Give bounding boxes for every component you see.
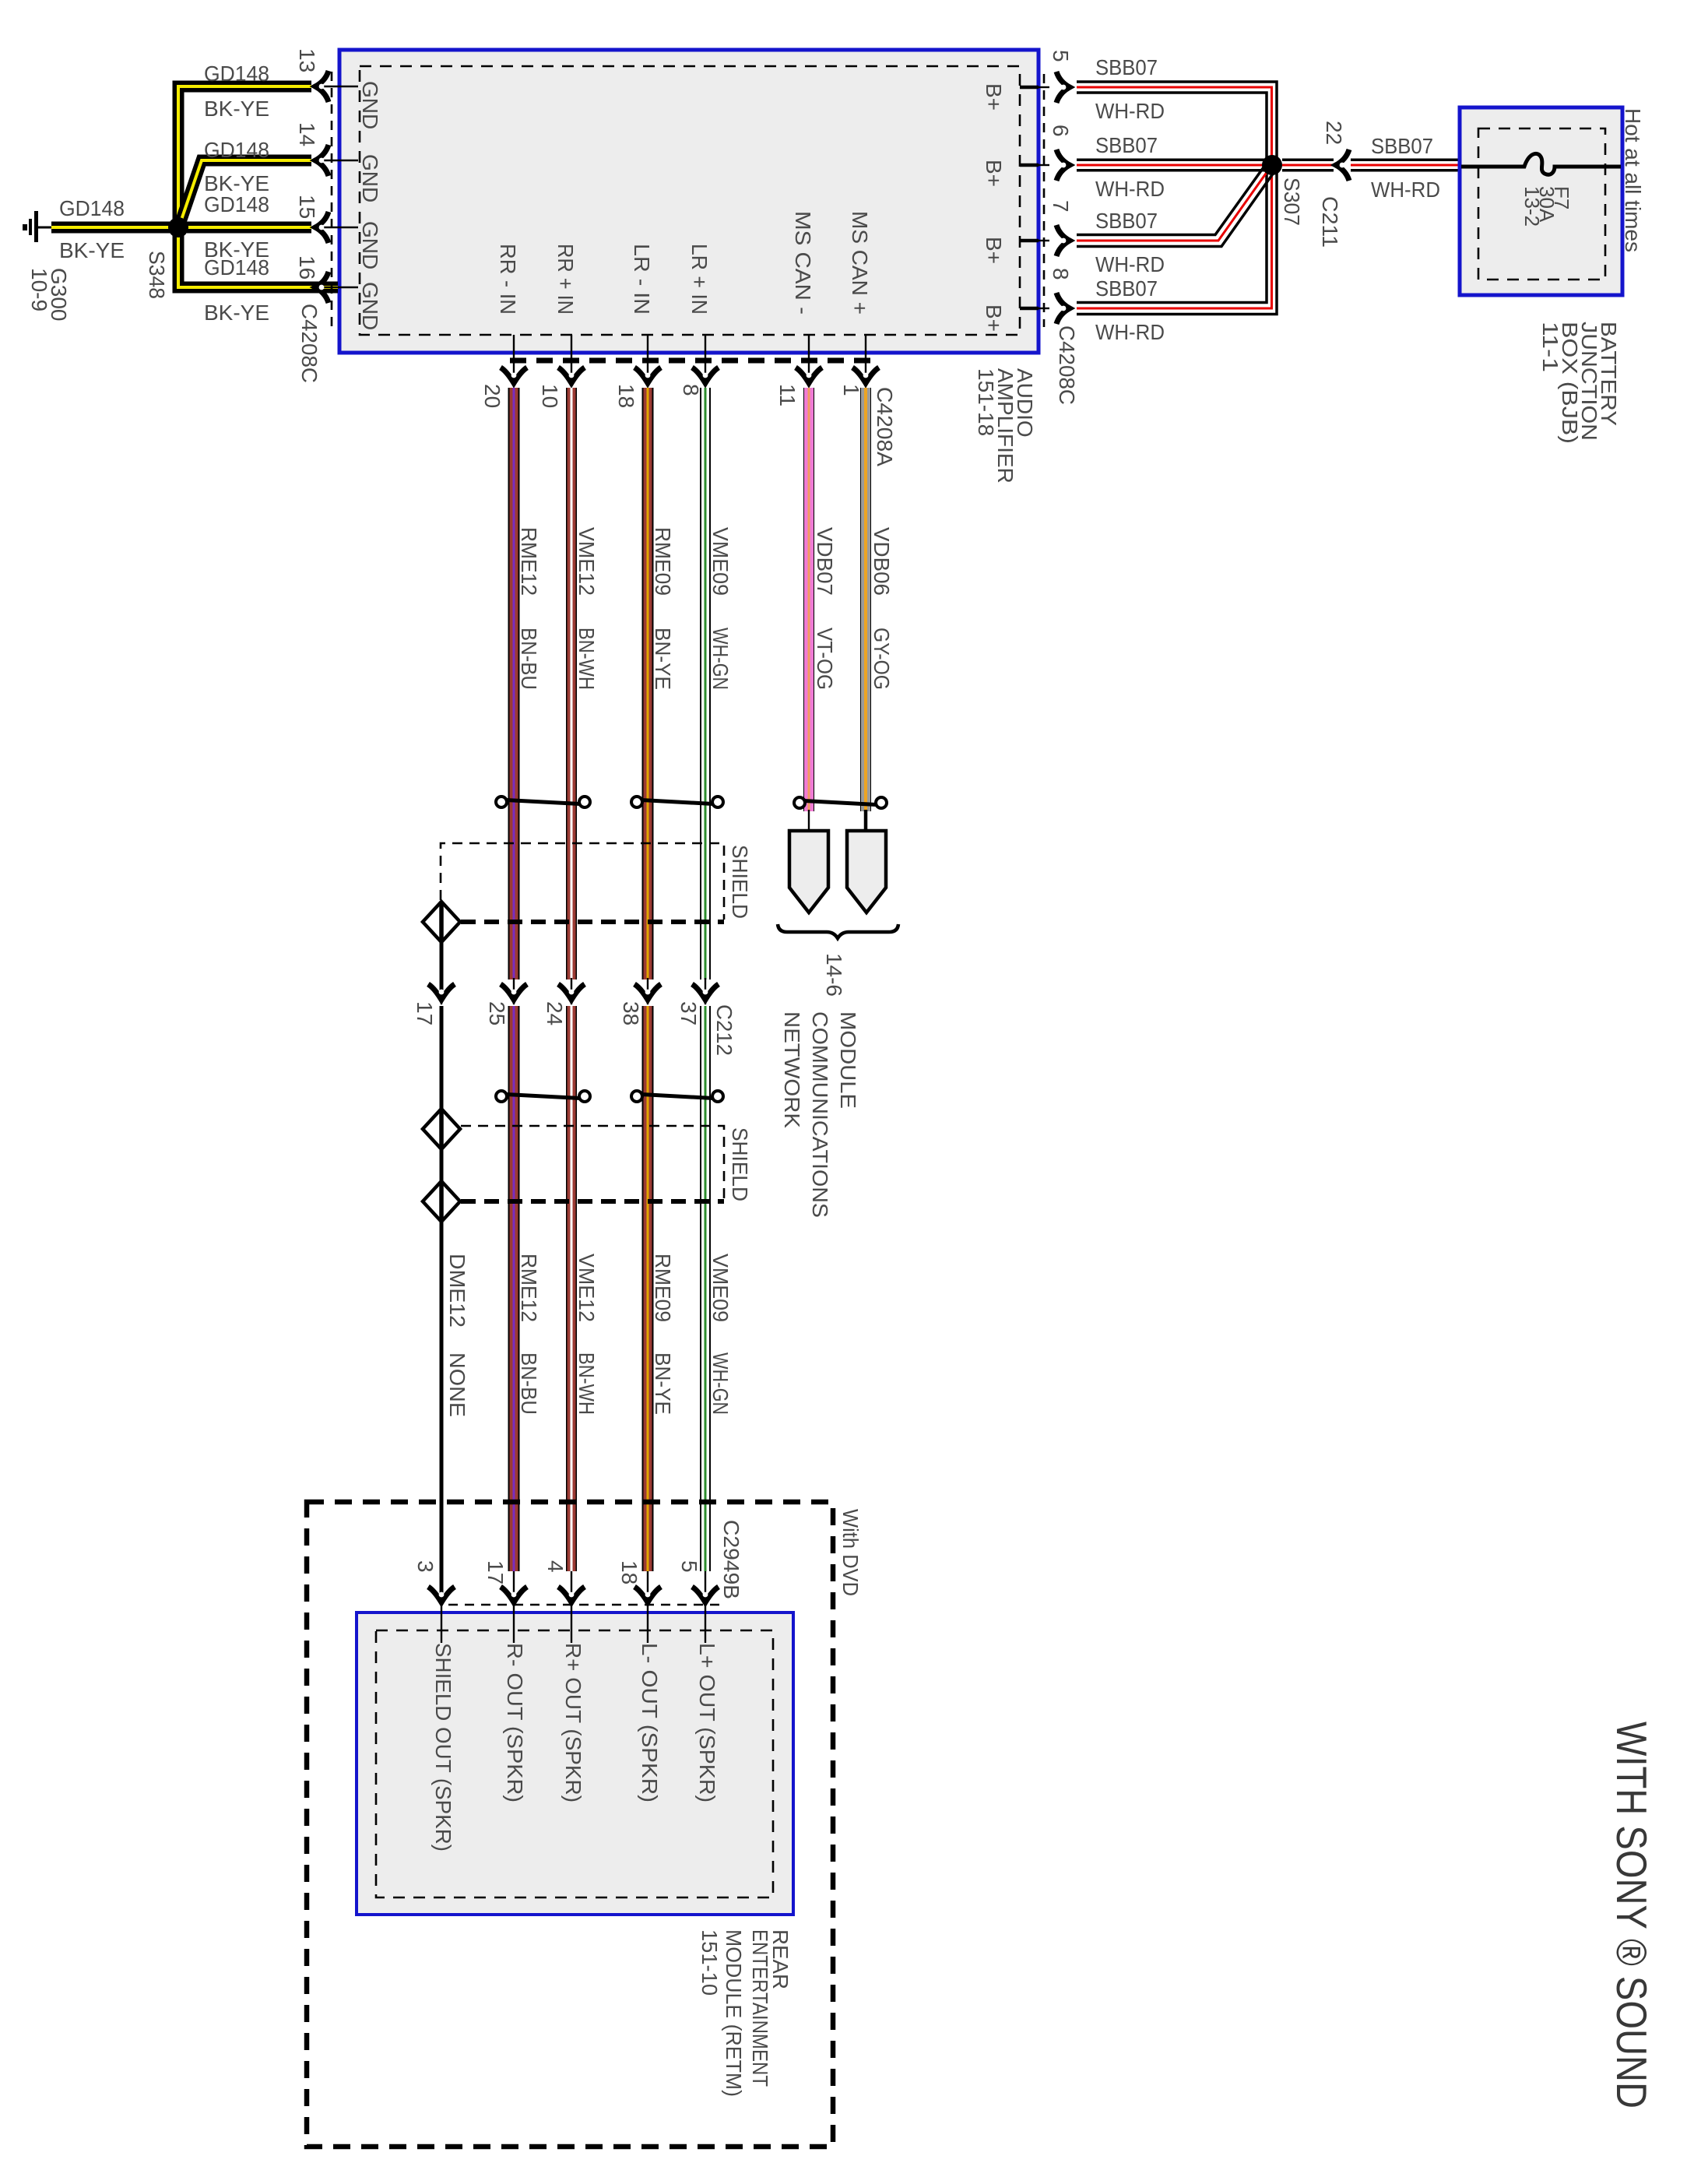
connector C4208A thick dashed line xyxy=(510,358,872,364)
svg-text:RME12: RME12 xyxy=(517,1254,541,1322)
pin number 17 (C212) xyxy=(413,1001,437,1025)
pin number 13 xyxy=(295,48,319,72)
pin label L+ OUT (SPKR) xyxy=(695,1643,719,1802)
svg-text:RME09: RME09 xyxy=(651,527,675,596)
svg-text:10-9: 10-9 xyxy=(27,268,51,311)
connector arrow pin 17 (C2949B) xyxy=(501,1587,527,1602)
connector arrow pin 10 (C4208A) xyxy=(558,368,585,383)
svg-text:WITH SONY ® SOUND: WITH SONY ® SOUND xyxy=(1608,1722,1656,2108)
svg-text:16: 16 xyxy=(295,255,319,280)
svg-text:151-18: 151-18 xyxy=(974,368,998,436)
connector C4208C dashed line (left) xyxy=(331,72,333,329)
svg-text:GD148: GD148 xyxy=(204,192,269,216)
label RME09 (lower) xyxy=(651,1254,675,1322)
connector arrow C211 pin 22 xyxy=(1336,149,1349,181)
pin label B+ 7 xyxy=(982,237,1006,264)
rear entertainment module box xyxy=(357,1613,793,1915)
label WH-RD (pin 6) xyxy=(1095,177,1165,201)
pin lead 17 (C212) xyxy=(441,978,442,1004)
label SHIELD (box 2) xyxy=(728,1127,752,1201)
label WH-RD (pin 8) xyxy=(1095,320,1165,344)
connector arrow pin 24 (C212) xyxy=(558,984,585,1000)
svg-text:RR + IN: RR + IN xyxy=(554,244,578,315)
svg-text:VME12: VME12 xyxy=(575,1254,599,1322)
connector arrow pin 6 xyxy=(1056,149,1070,181)
connector arrow pin 18 (C2949B) xyxy=(634,1587,661,1602)
lead pin 5 (C2949B) xyxy=(705,1571,706,1602)
label BN-WH xyxy=(575,628,599,690)
pin lead 16 xyxy=(322,287,358,288)
svg-text:18: 18 xyxy=(614,384,638,408)
svg-text:3: 3 xyxy=(413,1560,438,1573)
label VME09 xyxy=(708,527,733,596)
label C212 xyxy=(712,1004,736,1056)
pin number 3 (C2949B) xyxy=(413,1560,438,1573)
svg-text:VDB07: VDB07 xyxy=(813,527,837,596)
svg-text:GD148: GD148 xyxy=(204,255,269,280)
label BN-BU xyxy=(517,628,541,690)
label SBB07 (pin 7) xyxy=(1095,209,1158,233)
svg-text:B+: B+ xyxy=(982,83,1006,111)
svg-text:5: 5 xyxy=(1049,50,1073,62)
pin lead 11 (C4208A) xyxy=(808,335,810,386)
pin lead 38 (C212) xyxy=(647,978,648,1004)
connector arrow pin 17 (C212) xyxy=(428,984,455,1000)
label S307 xyxy=(1280,178,1304,226)
svg-text:C211: C211 xyxy=(1318,196,1342,248)
svg-text:WH-RD: WH-RD xyxy=(1371,178,1440,202)
svg-text:WH-RD: WH-RD xyxy=(1095,99,1165,123)
label WH-GN (lower) xyxy=(708,1352,733,1415)
label DME12 xyxy=(445,1254,469,1328)
pin number 16 xyxy=(295,255,319,280)
With DVD dashed box xyxy=(307,1502,833,2147)
svg-text:ENTERTAINMENT: ENTERTAINMENT xyxy=(748,1929,772,2087)
wire RME12 BN-BU upper segment xyxy=(508,388,520,979)
pin label MS CAN + xyxy=(848,211,872,315)
label BK-YE (pin 13) xyxy=(204,97,269,121)
label GD148 (pin 13) xyxy=(204,62,269,86)
pin number 11 (C4208A) xyxy=(775,384,800,406)
pin label R- OUT (SPKR) xyxy=(503,1643,527,1802)
label F7 30A 13-2 xyxy=(1520,186,1573,227)
svg-text:SBB07: SBB07 xyxy=(1371,134,1433,158)
label C4208C (left) xyxy=(297,304,322,383)
pin lead 15 xyxy=(322,227,358,228)
label SBB07 (to BJB) xyxy=(1371,134,1433,158)
svg-text:8: 8 xyxy=(1049,268,1073,280)
wire GD148 BK-YE to pin 16 xyxy=(178,234,338,287)
pin lead B+ 6 xyxy=(1020,164,1049,167)
svg-text:S348: S348 xyxy=(145,251,169,299)
pin lead 14 xyxy=(322,160,358,161)
pin lead B+ 5 xyxy=(1020,86,1049,90)
pin number 38 (C212) xyxy=(619,1001,643,1025)
pin number 1 (C4208A) xyxy=(839,384,863,396)
svg-text:C4208A: C4208A xyxy=(873,387,897,466)
svg-text:10: 10 xyxy=(538,384,562,408)
pin label RR + IN xyxy=(554,244,578,315)
splice S307 xyxy=(1262,155,1282,175)
svg-text:GND: GND xyxy=(358,221,382,269)
shield drain diamond 3 xyxy=(423,1181,460,1222)
svg-text:VME09: VME09 xyxy=(708,527,733,596)
svg-text:With DVD: With DVD xyxy=(838,1509,863,1596)
wire GD148 BK-YE to pin 14 xyxy=(180,160,311,224)
BJB inner dashed boundary xyxy=(1478,128,1605,280)
pin label GND 15 xyxy=(358,221,382,269)
pin lead 8 (C4208A) xyxy=(705,335,706,386)
pin number 25 (C212) xyxy=(485,1001,509,1025)
svg-text:SHIELD: SHIELD xyxy=(728,1127,752,1201)
fuse F7 30A xyxy=(1461,153,1621,174)
wire SBB07 WH-RD to BJB xyxy=(1351,159,1460,172)
pin lead 1 (C4208A) xyxy=(865,335,866,386)
shield drain diamond 2 xyxy=(423,1109,460,1149)
label GD148 (ground feed) xyxy=(59,196,125,220)
pin label RR - IN xyxy=(496,244,520,315)
pin number 8 xyxy=(1049,268,1073,280)
lead pin 3 (C2949B) xyxy=(441,1571,442,1602)
label Hot at all times xyxy=(1621,108,1645,252)
shield box 2 dashed outline xyxy=(461,1126,724,1201)
label C211 xyxy=(1318,196,1342,248)
label REAR ENTERTAINMENT MODULE (RETM) 151-10 xyxy=(698,1929,793,2097)
pin label L- OUT (SPKR) xyxy=(638,1643,662,1802)
wire SBB07 WH-RD pin 6 xyxy=(1077,159,1266,172)
connector arrow pin 5 (C2949B) xyxy=(692,1587,719,1602)
svg-text:MODULE: MODULE xyxy=(836,1011,860,1109)
connector arrow pin 14 xyxy=(315,145,329,176)
wire VME12 BN-WH upper segment xyxy=(566,388,577,979)
connector arrow pin 4 (C2949B) xyxy=(558,1587,585,1602)
svg-text:GD148: GD148 xyxy=(204,138,269,162)
lead to network terminator (MS CAN -) xyxy=(808,810,810,832)
svg-text:VME09: VME09 xyxy=(708,1254,733,1322)
svg-text:MODULE (RETM): MODULE (RETM) xyxy=(722,1929,746,2097)
label SBB07 (pin 5) xyxy=(1095,55,1158,79)
pin lead 20 (C4208A) xyxy=(513,335,515,386)
connector arrow pin 25 (C212) xyxy=(501,984,527,1000)
splice S348 xyxy=(168,217,188,237)
label GD148 (pin 16) xyxy=(204,255,269,280)
pin label LR + IN xyxy=(687,244,712,315)
svg-text:B+: B+ xyxy=(982,237,1006,264)
label AUDIO AMPLIFIER 151-18 xyxy=(974,368,1037,484)
pin label GND 16 xyxy=(358,282,382,330)
svg-text:13-2: 13-2 xyxy=(1520,186,1544,227)
lead into RETM pin 3 xyxy=(441,1602,442,1643)
svg-text:17: 17 xyxy=(413,1001,437,1025)
wire GD148 BK-YE to pin 13 xyxy=(178,86,311,227)
svg-text:BN-WH: BN-WH xyxy=(575,1352,599,1415)
label VME09 (lower) xyxy=(708,1254,733,1322)
pin number 18 (C2949B) xyxy=(617,1560,641,1584)
svg-text:VDB06: VDB06 xyxy=(870,527,894,596)
svg-text:BN-BU: BN-BU xyxy=(517,1352,541,1415)
label 14-6 xyxy=(822,953,846,997)
wire VME09 WH-GN upper segment xyxy=(700,388,711,979)
svg-text:MS CAN -: MS CAN - xyxy=(791,211,815,315)
svg-text:VT-OG: VT-OG xyxy=(813,628,837,690)
svg-text:14-6: 14-6 xyxy=(822,953,846,997)
svg-text:6: 6 xyxy=(1049,125,1073,137)
wire SBB07 WH-RD pin 7 xyxy=(1077,162,1275,247)
svg-text:SBB07: SBB07 xyxy=(1095,276,1158,301)
twisted pair symbol LR (lower) xyxy=(631,1091,723,1102)
twisted pair symbol RR (lower) xyxy=(496,1091,590,1102)
twisted pair symbol LR xyxy=(631,797,723,807)
svg-text:11-1: 11-1 xyxy=(1538,322,1562,372)
label SBB07 (pin 8) xyxy=(1095,276,1158,301)
svg-text:R- OUT (SPKR): R- OUT (SPKR) xyxy=(503,1643,527,1802)
svg-text:SBB07: SBB07 xyxy=(1095,209,1158,233)
label BK-YE (pin 16) xyxy=(204,301,269,325)
pin number 5 (C2949B) xyxy=(677,1560,701,1573)
connector arrow pin 8 xyxy=(1056,293,1070,324)
svg-text:DME12: DME12 xyxy=(445,1254,469,1328)
label GD148 (pin 15) xyxy=(204,192,269,216)
svg-text:B+: B+ xyxy=(982,160,1006,187)
pin label MS CAN - xyxy=(791,211,815,315)
label MODULE COMMUNICATIONS NETWORK xyxy=(780,1011,860,1218)
svg-text:RME12: RME12 xyxy=(517,527,541,596)
audio amplifier module box xyxy=(339,50,1039,353)
svg-text:C212: C212 xyxy=(712,1004,736,1056)
label NONE xyxy=(445,1352,469,1417)
network terminator (MS CAN -) xyxy=(789,831,828,913)
svg-text:15: 15 xyxy=(295,195,319,219)
wire SBB07 splice to C211 xyxy=(1282,159,1334,172)
lead to network terminator (MS CAN +) xyxy=(864,810,868,832)
svg-text:14: 14 xyxy=(295,122,319,146)
pin number 22 xyxy=(1322,121,1346,145)
connector arrow pin 16 xyxy=(315,272,329,303)
svg-text:WH-RD: WH-RD xyxy=(1095,177,1165,201)
svg-text:17: 17 xyxy=(483,1560,508,1584)
pin lead 37 (C212) xyxy=(705,978,706,1004)
lead into RETM pin 17 xyxy=(513,1602,515,1643)
label C2949B xyxy=(719,1520,743,1599)
pin number 6 xyxy=(1049,125,1073,137)
svg-text:GND: GND xyxy=(358,154,382,202)
pin number 4 (C2949B) xyxy=(543,1560,568,1573)
pin number 18 (C4208A) xyxy=(614,384,638,408)
svg-text:24: 24 xyxy=(543,1001,567,1025)
pin lead 25 (C212) xyxy=(513,978,515,1004)
label C4208C (right) xyxy=(1055,325,1079,405)
label WH-RD (pin 7) xyxy=(1095,252,1165,276)
shield drain diamond 1 xyxy=(423,902,460,942)
shield drain wire between diamonds xyxy=(440,1149,444,1181)
label GD148 (pin 14) xyxy=(204,138,269,162)
label WH-RD (pin 5) xyxy=(1095,99,1165,123)
connector arrow pin 8 (C4208A) xyxy=(692,368,719,383)
connector arrow pin 13 xyxy=(315,71,329,102)
svg-text:GND: GND xyxy=(358,81,382,129)
label S348 xyxy=(145,251,169,299)
svg-text:GND: GND xyxy=(358,282,382,330)
pin label B+ 6 xyxy=(982,160,1006,187)
pin label GND 14 xyxy=(358,154,382,202)
label VDB07 xyxy=(813,527,837,596)
svg-text:C4208C: C4208C xyxy=(1055,325,1079,405)
svg-text:COMMUNICATIONS: COMMUNICATIONS xyxy=(808,1011,832,1218)
ground G300 symbol xyxy=(23,211,53,242)
audio amplifier inner dashed boundary xyxy=(360,66,1020,335)
svg-text:NETWORK: NETWORK xyxy=(780,1011,804,1128)
wire GD148 BK-YE to pin 15 xyxy=(187,222,311,234)
wire DME12 NONE lower segment xyxy=(440,1222,444,1598)
svg-text:151-10: 151-10 xyxy=(698,1929,722,1996)
connector C2949B dashed line xyxy=(448,1604,726,1606)
wire VME09 WH-GN middle segment xyxy=(700,1006,711,1571)
label RME09 xyxy=(651,527,675,596)
wire RME09 BN-YE middle segment xyxy=(642,1006,654,1571)
svg-text:4: 4 xyxy=(543,1560,568,1573)
svg-text:WH-RD: WH-RD xyxy=(1095,320,1165,344)
pin number 15 xyxy=(295,195,319,219)
label VDB06 xyxy=(870,527,894,596)
wire VDB06 GY-OG segment xyxy=(860,388,871,811)
label BK-YE (pin 15) xyxy=(204,237,269,262)
pin number 7 xyxy=(1049,200,1073,213)
connector arrow pin 5 xyxy=(1056,72,1070,103)
lead into RETM pin 4 xyxy=(571,1602,572,1643)
svg-text:Hot at all times: Hot at all times xyxy=(1621,108,1645,252)
label With DVD xyxy=(838,1509,863,1596)
svg-text:BK-YE: BK-YE xyxy=(59,238,125,262)
label GY-OG xyxy=(870,628,894,690)
lead pin 17 (C2949B) xyxy=(513,1571,515,1602)
wire VME12 BN-WH middle segment xyxy=(566,1006,577,1571)
pin lead 10 (C4208A) xyxy=(571,335,572,386)
svg-text:WH-RD: WH-RD xyxy=(1095,252,1165,276)
svg-text:C4208C: C4208C xyxy=(297,304,322,383)
svg-text:SHIELD OUT (SPKR): SHIELD OUT (SPKR) xyxy=(431,1643,455,1852)
label RME12 (lower) xyxy=(517,1254,541,1322)
pin label R+ OUT (SPKR) xyxy=(561,1643,585,1802)
connector arrow pin 1 (C4208A) xyxy=(852,368,879,383)
pin label SHIELD OUT (SPKR) xyxy=(431,1643,455,1852)
svg-text:18: 18 xyxy=(617,1560,641,1584)
connector arrow pin 7 xyxy=(1056,225,1070,256)
network terminator (MS CAN +) xyxy=(847,831,886,913)
pin number 10 (C4208A) xyxy=(538,384,562,408)
pin number 8 (C4208A) xyxy=(679,384,703,396)
label RME12 xyxy=(517,527,541,596)
title WITH SONY (R) SOUND xyxy=(1608,1722,1656,2108)
svg-text:BN-YE: BN-YE xyxy=(651,628,675,690)
pin label B+ 8 xyxy=(982,304,1006,332)
wire RME12 BN-BU middle segment xyxy=(508,1006,520,1571)
wire DME12 NONE upper segment xyxy=(440,1006,444,1109)
pin label GND 13 xyxy=(358,81,382,129)
svg-text:LR - IN: LR - IN xyxy=(630,244,654,315)
RETM inner dashed boundary xyxy=(376,1630,773,1897)
shield drain wire to C212 xyxy=(440,942,444,999)
pin lead 24 (C212) xyxy=(571,978,572,1004)
svg-text:GD148: GD148 xyxy=(59,196,125,220)
wire SBB07 WH-RD pin 5 and bus to pin 8 xyxy=(1077,82,1277,315)
wire GD148 BK-YE ground feed xyxy=(51,222,173,234)
label BK-YE (pin 14) xyxy=(204,171,269,195)
svg-text:22: 22 xyxy=(1322,121,1346,145)
svg-text:B+: B+ xyxy=(982,304,1006,332)
svg-text:RR - IN: RR - IN xyxy=(496,244,520,315)
label BN-WH (lower) xyxy=(575,1352,599,1415)
shield box 1 thick dashed bottom xyxy=(461,920,724,924)
pin label LR - IN xyxy=(630,244,654,315)
svg-text:SHIELD: SHIELD xyxy=(728,845,752,919)
svg-text:R+ OUT (SPKR): R+ OUT (SPKR) xyxy=(561,1643,585,1802)
svg-text:WH-GN: WH-GN xyxy=(708,1352,733,1415)
wire VDB07 VT-OG segment xyxy=(803,388,814,811)
svg-text:RME09: RME09 xyxy=(651,1254,675,1322)
svg-text:13: 13 xyxy=(295,48,319,72)
connector arrow pin 37 (C212) xyxy=(692,984,719,1000)
wire RME09 BN-YE upper segment xyxy=(642,388,654,979)
svg-text:NONE: NONE xyxy=(445,1352,469,1417)
label BATTERY JUNCTION BOX (BJB) 11-1 xyxy=(1538,322,1621,444)
pin lead B+ 8 xyxy=(1020,307,1049,311)
svg-text:BN-WH: BN-WH xyxy=(575,628,599,690)
connector C4208C dashed line (right) xyxy=(1043,74,1046,327)
connector arrow pin 18 (C4208A) xyxy=(634,368,661,383)
pin number 5 xyxy=(1049,50,1073,62)
pin lead 18 (C4208A) xyxy=(647,335,648,386)
svg-text:20: 20 xyxy=(480,384,504,408)
svg-text:L+ OUT (SPKR): L+ OUT (SPKR) xyxy=(695,1643,719,1802)
pin number 37 (C212) xyxy=(677,1001,701,1025)
label SBB07 (pin 6) xyxy=(1095,133,1158,157)
connector arrow pin 3 (C2949B) xyxy=(428,1587,455,1602)
label C4208A xyxy=(873,387,897,466)
svg-text:BK-YE: BK-YE xyxy=(204,301,269,325)
label BN-BU (lower) xyxy=(517,1352,541,1415)
svg-text:MS CAN +: MS CAN + xyxy=(848,211,872,315)
brace module communications network xyxy=(778,924,898,938)
label BK-YE (ground feed) xyxy=(59,238,125,262)
twisted pair symbol RR xyxy=(496,797,590,807)
svg-text:BN-YE: BN-YE xyxy=(651,1352,675,1415)
svg-text:8: 8 xyxy=(679,384,703,396)
svg-text:BK-YE: BK-YE xyxy=(204,97,269,121)
svg-text:5: 5 xyxy=(677,1560,701,1573)
pin lead 13 xyxy=(322,86,358,87)
svg-text:S307: S307 xyxy=(1280,178,1304,226)
lead into RETM pin 18 xyxy=(647,1602,648,1643)
label BN-YE xyxy=(651,628,675,690)
svg-text:LR + IN: LR + IN xyxy=(687,244,712,315)
lead pin 18 (C2949B) xyxy=(647,1571,648,1602)
svg-text:SBB07: SBB07 xyxy=(1095,133,1158,157)
svg-text:L- OUT (SPKR): L- OUT (SPKR) xyxy=(638,1643,662,1802)
shield box 1 dashed outline xyxy=(441,843,724,920)
label VT-OG xyxy=(813,628,837,690)
pin number 24 (C212) xyxy=(543,1001,567,1025)
svg-text:SBB07: SBB07 xyxy=(1095,55,1158,79)
svg-text:11: 11 xyxy=(775,384,800,406)
svg-text:25: 25 xyxy=(485,1001,509,1025)
connector arrow pin 11 (C4208A) xyxy=(796,368,822,383)
pin lead B+ 7 xyxy=(1020,239,1049,243)
svg-text:7: 7 xyxy=(1049,200,1073,213)
battery junction box (BJB) xyxy=(1460,107,1622,295)
pin number 14 xyxy=(295,122,319,146)
svg-text:GD148: GD148 xyxy=(204,62,269,86)
pin number 20 (C4208A) xyxy=(480,384,504,408)
